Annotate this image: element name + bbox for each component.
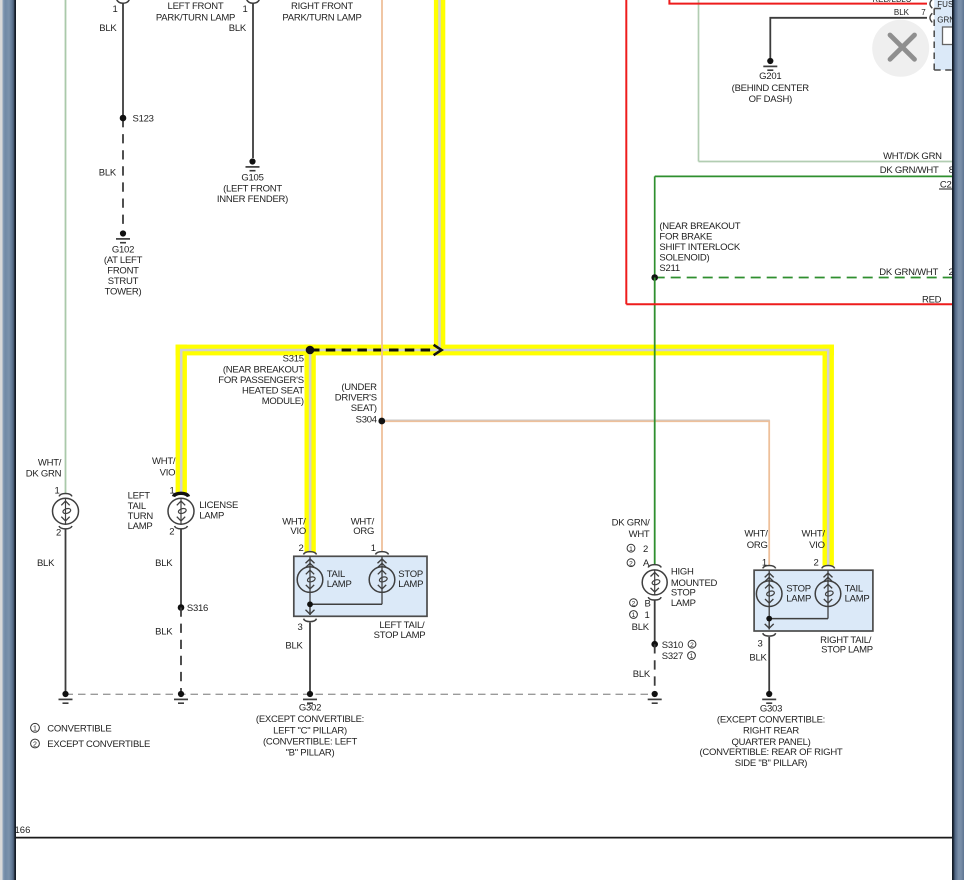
viewer right scrollbar: [952, 0, 964, 880]
svg-text:G105: G105: [241, 173, 263, 184]
svg-text:BLK: BLK: [285, 641, 303, 652]
fuse element box: [943, 27, 959, 45]
box (dark green circuit) left edge: [654, 176, 656, 277]
box (light green circuit) left edge: [698, 0, 700, 162]
svg-text:S211: S211: [659, 263, 679, 274]
svg-text:(AT LEFT: (AT LEFT: [104, 255, 143, 266]
svg-text:3: 3: [298, 622, 303, 633]
svg-text:RIGHT REAR: RIGHT REAR: [743, 726, 799, 737]
lamp STOP LAMP (right box): [756, 570, 782, 628]
svg-text:PARK/TURN LAMP: PARK/TURN LAMP: [156, 12, 235, 23]
pin 2 connector (right box): [822, 565, 835, 568]
junction node (right box): [766, 616, 772, 622]
close button: [872, 20, 929, 77]
svg-text:"B" PILLAR): "B" PILLAR): [286, 748, 335, 759]
pin 1 connector (right box): [763, 565, 776, 568]
ground G303: [762, 691, 776, 703]
wire BLK from license lamp pin 2 to splice S316: [180, 529, 182, 608]
svg-text:SHIFT INTERLOCK: SHIFT INTERLOCK: [659, 242, 740, 253]
component box RIGHT TAIL/STOP LAMP: [754, 570, 873, 631]
svg-text:(LEFT FRONT: (LEFT FRONT: [223, 183, 282, 194]
svg-text:BLK: BLK: [37, 558, 55, 569]
svg-text:LAMP: LAMP: [327, 579, 352, 590]
svg-text:ORG: ORG: [353, 526, 374, 537]
svg-text:2: 2: [299, 543, 304, 554]
svg-text:BLK: BLK: [633, 669, 651, 680]
svg-text:VIO: VIO: [290, 526, 306, 537]
svg-text:(EXCEPT CONVERTIBLE:: (EXCEPT CONVERTIBLE:: [256, 714, 364, 725]
wire BLK dashed from S316 to ground: [180, 608, 182, 692]
svg-text:DK GRN/WHT: DK GRN/WHT: [880, 165, 939, 176]
svg-text:1: 1: [690, 653, 694, 660]
svg-text:WHT/: WHT/: [802, 528, 826, 539]
svg-text:DRIVER'S: DRIVER'S: [335, 393, 377, 404]
svg-text:BLK: BLK: [99, 167, 117, 178]
svg-text:BLK: BLK: [229, 23, 247, 34]
svg-text:1: 1: [629, 546, 633, 553]
wire DK GRN/WHT from S211 to high mounted stop lamp: [654, 278, 656, 565]
svg-text:STRUT: STRUT: [108, 276, 139, 287]
svg-text:1: 1: [33, 726, 37, 733]
splice node S123: [120, 115, 127, 122]
splice node S211: [651, 274, 658, 281]
pin 3 connector (right box): [763, 633, 776, 636]
svg-text:7: 7: [921, 8, 926, 17]
wire BLK dashed from S310 to ground: [654, 644, 656, 691]
pin 2 connector (left box): [304, 552, 317, 555]
svg-text:WHT/DK GRN: WHT/DK GRN: [883, 151, 942, 162]
lamp TAIL LAMP (left box): [297, 556, 323, 614]
svg-text:LICENSE: LICENSE: [199, 500, 238, 511]
svg-text:1: 1: [645, 610, 650, 621]
svg-text:2: 2: [643, 544, 648, 555]
svg-text:G303: G303: [760, 704, 782, 715]
ground G102: [116, 230, 130, 242]
svg-text:LAMP: LAMP: [199, 511, 224, 522]
page bottom rule: [16, 837, 952, 839]
svg-text:SOLENOID): SOLENOID): [659, 253, 709, 264]
svg-text:STOP: STOP: [671, 587, 696, 598]
svg-text:LAMP: LAMP: [671, 598, 696, 609]
svg-text:2: 2: [629, 560, 633, 567]
svg-text:VIO: VIO: [160, 468, 176, 479]
arrowhead of dashed breakout: [434, 345, 442, 355]
svg-text:LEFT: LEFT: [128, 491, 151, 502]
svg-text:WHT/: WHT/: [152, 456, 176, 467]
ground G201: [763, 58, 777, 70]
svg-text:2: 2: [813, 558, 818, 569]
svg-text:ORG: ORG: [747, 540, 768, 551]
svg-text:FRONT: FRONT: [107, 266, 139, 277]
svg-text:S304: S304: [356, 414, 377, 425]
svg-text:S316: S316: [187, 603, 208, 614]
svg-text:LEFT FRONT: LEFT FRONT: [168, 1, 224, 12]
wire highlight: yellow band down to right tail lamp pin 2: [823, 345, 834, 566]
svg-text:B: B: [645, 598, 651, 609]
svg-text:BLK: BLK: [99, 23, 117, 34]
wire RED to fuse block: [669, 0, 927, 4]
pin 1 connector (left box): [376, 552, 389, 555]
svg-text:G302: G302: [299, 703, 321, 714]
junction node (left box): [307, 601, 313, 607]
lamp HIGH MOUNTED STOP LAMP: [642, 565, 667, 600]
wire WHT/ORG vertical left (to left box pin 1): [381, 0, 383, 552]
wire WHT/ORG branch from S304 to right box pin 1: [382, 421, 769, 565]
svg-text:TOWER): TOWER): [105, 287, 142, 298]
svg-text:FOR PASSENGER'S: FOR PASSENGER'S: [218, 375, 304, 386]
svg-text:VIO: VIO: [809, 540, 825, 551]
wire WHT/VIO core from top (in yellow): [438, 0, 441, 350]
legend note 1 CONVERTIBLE: [31, 723, 40, 732]
svg-text:LAMP: LAMP: [128, 521, 153, 532]
svg-text:DK GRN/WHT: DK GRN/WHT: [879, 267, 938, 278]
component box LEFT TAIL/STOP LAMP: [294, 556, 427, 616]
wire BLK right box pin 3 to ground G303: [768, 637, 770, 692]
ground (high mounted stop lamp): [648, 691, 662, 703]
box (dark green circuit) top edge: [655, 175, 964, 177]
svg-text:DK GRN/: DK GRN/: [612, 517, 650, 528]
svg-text:BLK: BLK: [155, 558, 173, 569]
svg-text:STOP LAMP: STOP LAMP: [374, 630, 426, 641]
svg-text:LEFT "C" PILLAR): LEFT "C" PILLAR): [273, 725, 347, 736]
splice node S310/S327: [651, 641, 658, 648]
box (red circuit) bottom edge: [626, 303, 964, 305]
internal wire joining lamps (right box): [769, 619, 828, 630]
svg-text:2: 2: [33, 741, 37, 748]
svg-text:G201: G201: [759, 71, 781, 82]
svg-text:2: 2: [690, 642, 694, 649]
internal wire joining lamps (left box): [310, 604, 382, 615]
fuse block (dashed component box): [934, 0, 964, 70]
wire BLK to right front park/turn lamp pin 1: [246, 0, 260, 158]
lamp TAIL LAMP (right box): [815, 570, 841, 618]
wire WHT/VIO core to left box pin 2 (in yellow): [309, 350, 312, 552]
ground G302: [303, 691, 317, 703]
svg-text:WHT: WHT: [629, 529, 650, 540]
svg-text:(BEHIND CENTER: (BEHIND CENTER: [732, 83, 810, 94]
svg-text:1: 1: [170, 485, 175, 496]
svg-text:DK GRN: DK GRN: [26, 469, 62, 480]
svg-text:SIDE "B" PILLAR): SIDE "B" PILLAR): [735, 758, 808, 769]
svg-text:(CONVERTIBLE: REAR OF RIGHT: (CONVERTIBLE: REAR OF RIGHT: [700, 747, 843, 758]
svg-text:G102: G102: [112, 245, 134, 256]
ground G105: [246, 158, 260, 170]
wire highlight: yellow band horizontal S315 row: [176, 345, 834, 356]
splice node S304: [378, 418, 385, 425]
svg-text:(NEAR BREAKOUT: (NEAR BREAKOUT: [223, 364, 304, 375]
legend note 2 EXCEPT CONVERTIBLE: [31, 739, 40, 748]
wire highlight: yellow band down to license lamp: [176, 345, 187, 495]
connector cavity (BLK wire): [930, 13, 932, 22]
wire WHT/DK GRN to left tail turn lamp: [65, 0, 67, 494]
svg-text:(EXCEPT CONVERTIBLE:: (EXCEPT CONVERTIBLE:: [717, 714, 825, 725]
pin variant labels above lamp: [627, 544, 635, 566]
ground (license lamp): [174, 691, 188, 703]
svg-text:SEAT): SEAT): [351, 403, 377, 414]
svg-text:RED: RED: [922, 295, 942, 306]
wire BLK left box pin 3 to ground G302: [309, 623, 311, 692]
lamp LICENSE LAMP: [168, 498, 194, 529]
pin 3 connector (left box): [304, 619, 317, 622]
svg-text:3: 3: [758, 638, 763, 649]
svg-text:BLK: BLK: [749, 652, 767, 663]
svg-text:(UNDER: (UNDER: [341, 382, 377, 393]
wire highlight: yellow band down to left tail lamp pin 2: [305, 345, 316, 553]
splice node S316: [178, 604, 185, 611]
svg-text:1: 1: [54, 486, 59, 497]
wire highlight: yellow band vertical from top to S315 row: [434, 0, 445, 355]
svg-text:LAMP: LAMP: [786, 593, 811, 604]
svg-text:S315: S315: [283, 353, 304, 364]
svg-text:1: 1: [242, 4, 247, 15]
wire WHT/VIO license lamp pin1 connector (bold): [174, 493, 189, 496]
svg-text:1: 1: [632, 612, 636, 619]
connector cavity (red wire): [930, 0, 932, 8]
svg-text:BLK: BLK: [894, 8, 910, 17]
svg-text:OF DASH): OF DASH): [749, 94, 792, 105]
lamp STOP LAMP (left box): [369, 556, 395, 604]
wire BLK from left tail turn lamp pin 2 to ground: [65, 529, 67, 692]
svg-text:2: 2: [632, 600, 636, 607]
svg-text:S327: S327: [662, 651, 683, 662]
svg-text:FOR BRAKE: FOR BRAKE: [659, 232, 712, 243]
svg-text:HEATED SEAT: HEATED SEAT: [242, 385, 304, 396]
svg-text:166: 166: [15, 825, 31, 836]
wire BLK to ground G201: [770, 18, 927, 59]
svg-text:CONVERTIBLE: CONVERTIBLE: [47, 723, 111, 734]
svg-text:2: 2: [169, 527, 174, 538]
svg-text:WHT/: WHT/: [38, 457, 62, 468]
svg-text:S123: S123: [133, 114, 154, 125]
wire BLK from lamp to splice S310: [654, 601, 656, 645]
svg-text:WHT/: WHT/: [744, 528, 768, 539]
svg-text:HIGH: HIGH: [671, 566, 694, 577]
wire DK GRN/WHT dashed to right: [655, 277, 952, 279]
svg-text:STOP LAMP: STOP LAMP: [821, 645, 873, 656]
wire BLK to left front park/turn lamp pin 1: [116, 0, 130, 230]
splice node S315: [306, 346, 315, 355]
svg-text:1: 1: [371, 543, 376, 554]
svg-text:BLK: BLK: [632, 622, 650, 633]
svg-text:S310: S310: [662, 640, 683, 651]
svg-text:1: 1: [112, 4, 117, 15]
wire: black dashed breakout S315 to splice arrow: [310, 349, 436, 352]
box (red circuit) left edge: [625, 0, 627, 304]
svg-text:INNER FENDER): INNER FENDER): [217, 194, 288, 205]
svg-text:PARK/TURN LAMP: PARK/TURN LAMP: [282, 12, 361, 23]
svg-text:BLK: BLK: [155, 627, 173, 638]
ground bus dashed wire: [66, 693, 655, 695]
box (light green circuit) bottom edge: [699, 161, 964, 163]
pin variant labels below lamp: [630, 599, 638, 619]
svg-text:(CONVERTIBLE: LEFT: (CONVERTIBLE: LEFT: [263, 736, 357, 747]
svg-text:LAMP: LAMP: [845, 593, 870, 604]
svg-text:LAMP: LAMP: [398, 579, 423, 590]
svg-text:RIGHT FRONT: RIGHT FRONT: [291, 1, 353, 12]
viewer left sidebar: [0, 0, 16, 880]
lamp LEFT TAIL TURN LAMP: [53, 494, 79, 529]
wire WHT/VIO core horizontal (in yellow): [181, 350, 828, 566]
svg-text:(NEAR BREAKOUT: (NEAR BREAKOUT: [659, 221, 740, 232]
svg-text:2: 2: [56, 528, 61, 539]
ground (left tail turn lamp): [59, 691, 73, 703]
svg-text:MODULE): MODULE): [262, 396, 304, 407]
svg-text:EXCEPT CONVERTIBLE: EXCEPT CONVERTIBLE: [47, 739, 150, 750]
